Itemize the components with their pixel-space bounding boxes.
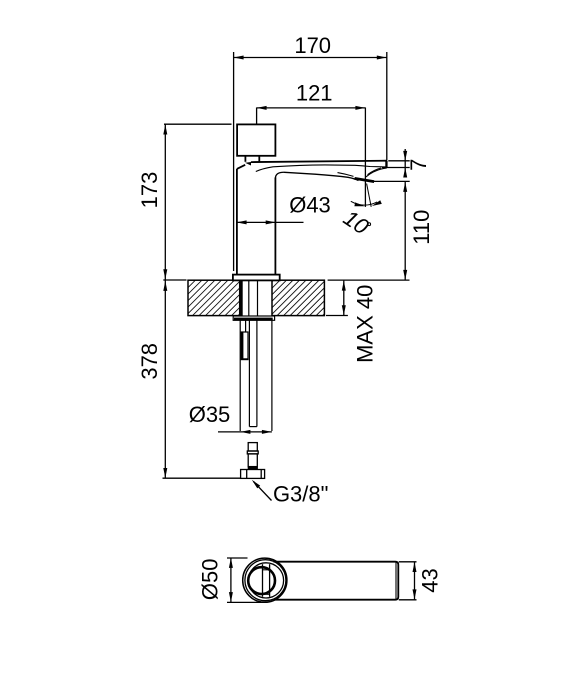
svg-text:170: 170 bbox=[294, 33, 331, 58]
svg-text:7: 7 bbox=[406, 159, 431, 171]
svg-text:Ø43: Ø43 bbox=[289, 192, 331, 217]
svg-text:Ø50: Ø50 bbox=[198, 559, 223, 601]
svg-text:43: 43 bbox=[418, 568, 443, 592]
svg-text:Ø35: Ø35 bbox=[189, 402, 231, 427]
svg-text:MAX 40: MAX 40 bbox=[353, 285, 378, 363]
svg-text:121: 121 bbox=[296, 80, 333, 105]
svg-text:378: 378 bbox=[137, 343, 162, 380]
svg-text:G3/8": G3/8" bbox=[273, 481, 329, 506]
svg-text:110: 110 bbox=[409, 210, 434, 245]
svg-text:173: 173 bbox=[137, 172, 162, 209]
